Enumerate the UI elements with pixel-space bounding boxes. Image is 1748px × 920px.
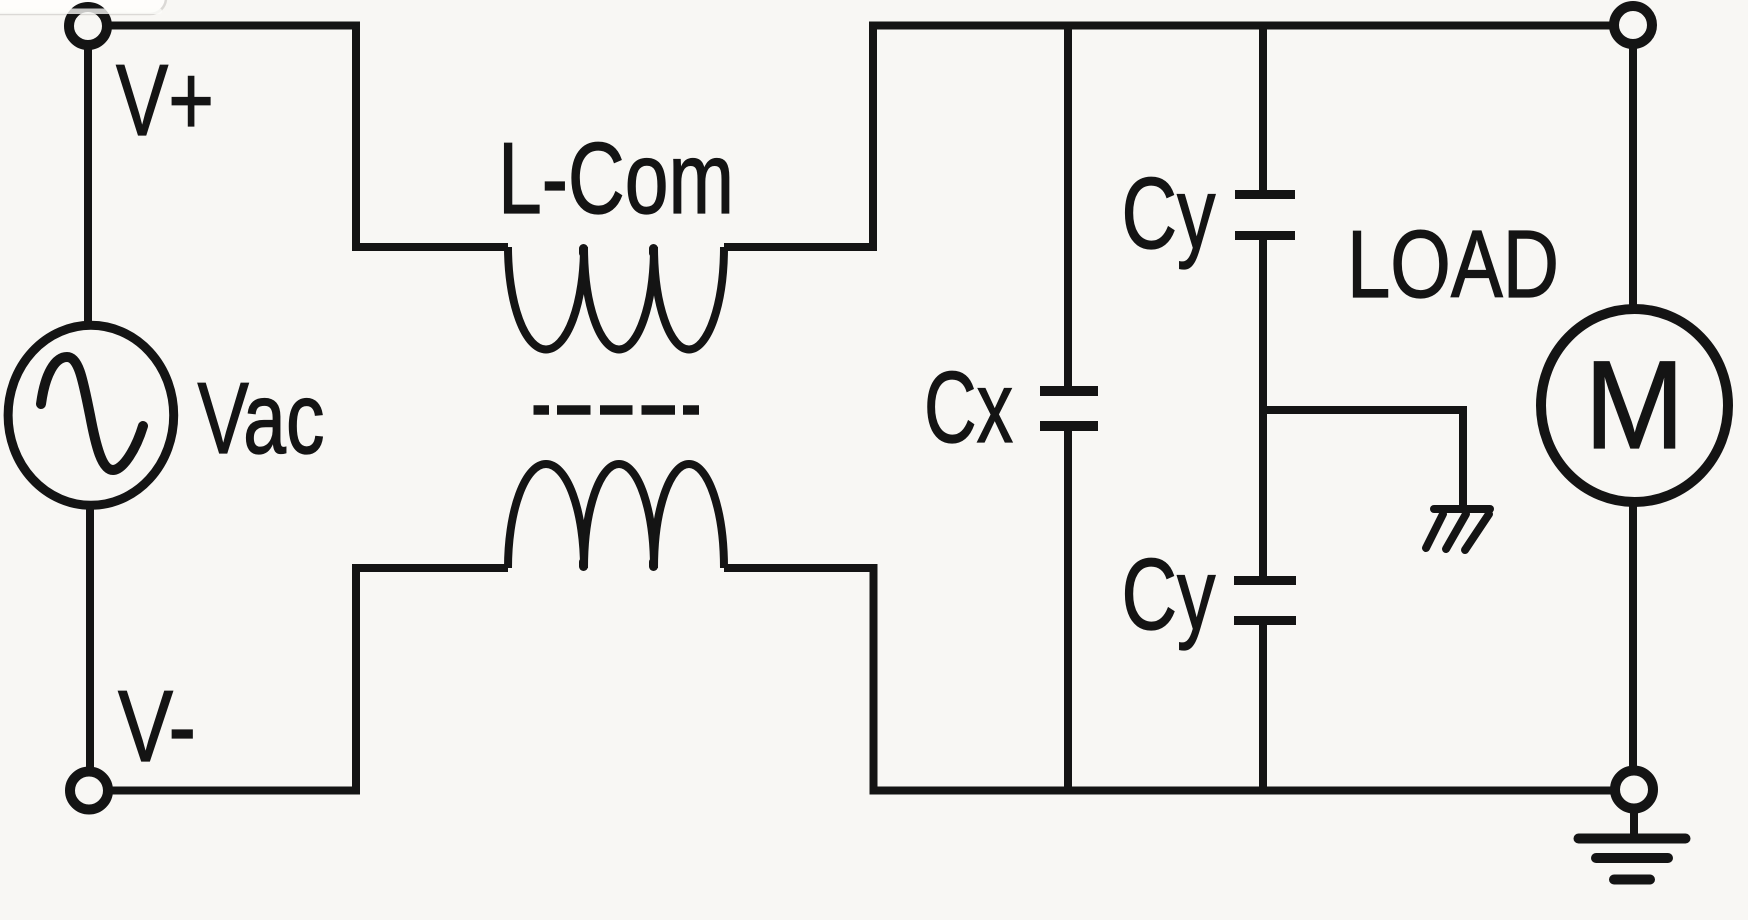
capacitor Cx top lead [1064,26,1072,387]
wire top-left from V+ terminal to inductor input [106,26,508,248]
wire motor bottom lead [1629,502,1637,772]
svg-text:M: M [1585,336,1685,475]
common-mode choke core (dashed) [534,405,700,415]
svg-text:Vac: Vac [198,363,325,475]
AC source Vac circle [8,325,174,505]
wire Vac top lead [84,44,92,326]
terminal node top-right [1614,6,1652,44]
wire node tap to chassis ground [1263,410,1463,505]
svg-text:LOAD: LOAD [1347,211,1559,318]
wire Vac bottom lead [86,505,94,770]
capacitor Cy1 plates [1235,190,1295,199]
terminal node V- [70,772,108,810]
capacitor Cx bottom lead [1064,431,1072,790]
svg-text:L-Com: L-Com [498,123,734,235]
wire motor top lead [1629,43,1637,309]
capacitor Cy1 top lead [1259,26,1267,191]
wire bottom-right from inductor output down to bottom rail [724,568,1614,791]
common-mode choke L-Com top winding [508,247,724,350]
svg-text:V+: V+ [116,45,214,157]
terminal node V+ [69,7,107,45]
motor M circle [1541,309,1728,502]
wire cusp stub bottom winding [579,562,588,567]
svg-text:V-: V- [118,671,196,783]
wire bottom-left from V- terminal to inductor input [108,568,508,791]
capacitor Cx plates [1040,386,1098,396]
ui ghost artifact stripe overlay [0,9,162,15]
svg-text:Cx: Cx [924,352,1013,464]
ui ghost artifact top-left (pill under circuit) [0,0,166,14]
chassis ground [1426,509,1490,550]
wire top-right from inductor output up to top rail [724,26,1614,248]
wire Cy midpoint vertical [1259,240,1267,576]
wire cusp stub top winding [579,249,588,254]
terminal node bottom-right [1615,771,1653,809]
svg-text:Cy: Cy [1122,158,1216,270]
AC source sine wave [41,357,143,470]
common-mode choke L-Com bottom winding [508,464,724,568]
earth ground [1579,839,1686,880]
earth ground lead [1630,808,1638,834]
capacitor Cy2 bottom lead [1259,625,1267,790]
svg-text:Cy: Cy [1122,539,1216,651]
capacitor Cy2 plates [1234,576,1296,585]
